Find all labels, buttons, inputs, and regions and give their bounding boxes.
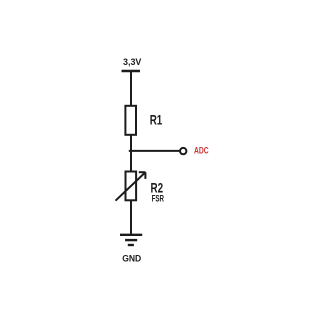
svg-text:GND: GND: [122, 253, 141, 263]
svg-text:ADC: ADC: [194, 145, 209, 155]
svg-text:3,3V: 3,3V: [123, 57, 142, 67]
svg-text:R1: R1: [150, 111, 163, 127]
svg-text:FSR: FSR: [152, 193, 164, 204]
